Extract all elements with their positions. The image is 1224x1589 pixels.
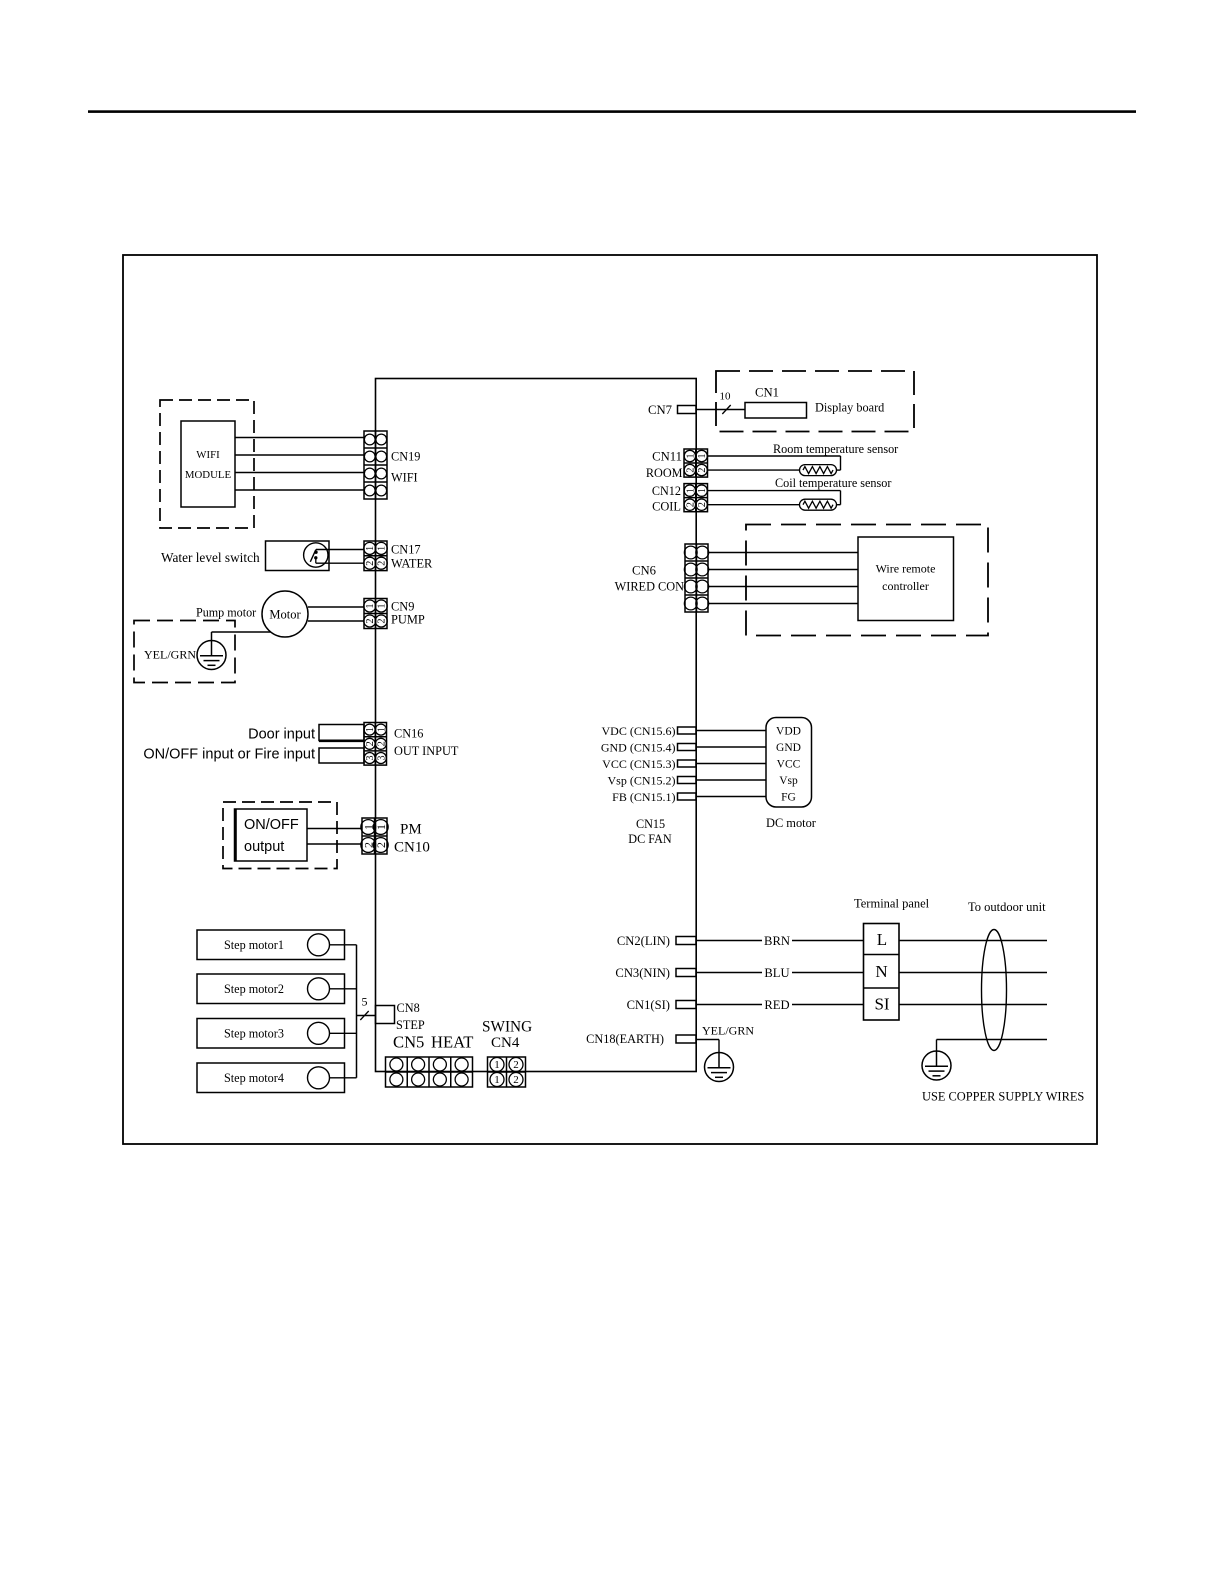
svg-text:CN19: CN19 — [391, 450, 420, 464]
svg-text:CN11: CN11 — [652, 449, 682, 463]
svg-text:2: 2 — [513, 1074, 519, 1086]
svg-text:VCC: VCC — [777, 759, 801, 771]
svg-text:CN2(LIN): CN2(LIN) — [617, 934, 670, 948]
svg-text:CN1(SI): CN1(SI) — [627, 998, 670, 1012]
svg-text:2: 2 — [365, 561, 376, 566]
svg-text:SI: SI — [874, 995, 889, 1014]
svg-text:Vsp (CN15.2): Vsp (CN15.2) — [608, 773, 676, 787]
svg-text:L: L — [877, 930, 887, 949]
svg-text:WIFI: WIFI — [196, 449, 220, 461]
svg-text:To outdoor unit: To outdoor unit — [968, 900, 1046, 914]
svg-text:Room temperature sensor: Room temperature sensor — [773, 442, 898, 456]
svg-text:Step motor3: Step motor3 — [224, 1027, 284, 1041]
svg-text:ROOM: ROOM — [646, 466, 683, 480]
svg-text:CN1: CN1 — [755, 385, 779, 399]
svg-text:1: 1 — [365, 727, 376, 732]
svg-text:OUT INPUT: OUT INPUT — [394, 744, 459, 758]
svg-text:Motor: Motor — [269, 607, 301, 621]
svg-text:2: 2 — [365, 619, 376, 624]
svg-text:ON/OFF input or Fire input: ON/OFF input or Fire input — [143, 747, 315, 763]
svg-text:STEP: STEP — [396, 1018, 425, 1032]
svg-text:2: 2 — [374, 842, 388, 848]
svg-text:DC motor: DC motor — [766, 816, 817, 830]
svg-text:2: 2 — [697, 468, 708, 473]
svg-text:CN5: CN5 — [393, 1033, 424, 1052]
svg-text:2: 2 — [377, 561, 388, 566]
svg-text:PUMP: PUMP — [391, 613, 425, 627]
svg-text:Wire remote: Wire remote — [876, 561, 936, 575]
svg-text:ON/OFF: ON/OFF — [244, 817, 299, 833]
svg-text:2: 2 — [376, 741, 387, 746]
svg-text:1: 1 — [374, 824, 388, 830]
svg-text:BRN: BRN — [764, 934, 790, 948]
svg-text:CN7: CN7 — [648, 403, 672, 417]
svg-text:2: 2 — [365, 741, 376, 746]
svg-text:WIRED CON: WIRED CON — [615, 579, 684, 593]
svg-text:3: 3 — [365, 756, 376, 761]
svg-text:FB (CN15.1): FB (CN15.1) — [612, 790, 675, 804]
svg-text:1: 1 — [685, 488, 696, 493]
svg-text:CN12: CN12 — [652, 484, 681, 498]
svg-text:Step motor2: Step motor2 — [224, 982, 284, 996]
svg-text:5: 5 — [362, 995, 368, 1009]
svg-text:Display board: Display board — [815, 400, 884, 414]
svg-text:PM: PM — [400, 821, 422, 837]
svg-text:Step motor4: Step motor4 — [224, 1071, 284, 1085]
svg-text:CN17: CN17 — [391, 543, 421, 557]
svg-text:2: 2 — [377, 619, 388, 624]
svg-text:FG: FG — [781, 792, 796, 804]
svg-text:Terminal panel: Terminal panel — [854, 897, 930, 911]
svg-text:BLU: BLU — [764, 966, 789, 980]
svg-text:CN15: CN15 — [636, 817, 665, 831]
svg-text:2: 2 — [685, 502, 696, 507]
svg-text:CN3(NIN): CN3(NIN) — [615, 966, 670, 980]
svg-text:output: output — [244, 839, 284, 855]
svg-text:COIL: COIL — [652, 499, 681, 513]
svg-text:Pump motor: Pump motor — [196, 605, 256, 619]
svg-text:Vsp: Vsp — [779, 775, 798, 787]
svg-text:WIFI: WIFI — [391, 471, 418, 485]
svg-text:YEL/GRN: YEL/GRN — [702, 1023, 754, 1037]
svg-text:Door input: Door input — [248, 727, 315, 743]
svg-text:SWING: SWING — [482, 1018, 532, 1035]
svg-text:1: 1 — [377, 604, 388, 609]
svg-text:1: 1 — [494, 1074, 500, 1086]
svg-text:DC FAN: DC FAN — [628, 832, 672, 846]
svg-text:1: 1 — [377, 546, 388, 551]
svg-text:1: 1 — [697, 488, 708, 493]
svg-text:N: N — [875, 962, 887, 981]
svg-text:3: 3 — [376, 756, 387, 761]
svg-text:1: 1 — [494, 1059, 500, 1071]
svg-text:GND (CN15.4): GND (CN15.4) — [601, 740, 676, 754]
svg-text:CN4: CN4 — [491, 1035, 520, 1051]
svg-text:Step motor1: Step motor1 — [224, 938, 284, 952]
svg-text:USE COPPER SUPPLY WIRES: USE COPPER SUPPLY WIRES — [922, 1089, 1084, 1103]
svg-text:HEAT: HEAT — [431, 1033, 473, 1052]
svg-text:2: 2 — [697, 502, 708, 507]
svg-text:1: 1 — [365, 546, 376, 551]
svg-text:1: 1 — [376, 727, 387, 732]
svg-text:MODULE: MODULE — [185, 469, 232, 481]
svg-text:controller: controller — [882, 579, 929, 593]
svg-text:RED: RED — [764, 998, 789, 1012]
svg-text:VCC (CN15.3): VCC (CN15.3) — [602, 757, 675, 771]
svg-text:WATER: WATER — [391, 557, 433, 571]
svg-text:CN16: CN16 — [394, 726, 423, 740]
svg-text:10: 10 — [720, 391, 732, 403]
svg-text:CN10: CN10 — [394, 839, 430, 855]
svg-text:Coil temperature sensor: Coil temperature sensor — [775, 476, 891, 490]
svg-text:1: 1 — [365, 604, 376, 609]
svg-text:YEL/GRN: YEL/GRN — [144, 647, 196, 661]
svg-text:GND: GND — [776, 742, 801, 754]
svg-text:CN9: CN9 — [391, 600, 414, 614]
svg-text:VDC (CN15.6): VDC (CN15.6) — [602, 724, 676, 738]
svg-text:2: 2 — [685, 468, 696, 473]
svg-text:2: 2 — [513, 1059, 519, 1071]
svg-text:CN8: CN8 — [397, 1001, 420, 1015]
svg-text:CN6: CN6 — [632, 563, 656, 577]
svg-text:Water level switch: Water level switch — [161, 550, 260, 565]
svg-text:CN18(EARTH): CN18(EARTH) — [586, 1032, 664, 1046]
svg-text:VDD: VDD — [776, 726, 801, 738]
svg-text:1: 1 — [697, 454, 708, 459]
svg-text:1: 1 — [685, 454, 696, 459]
